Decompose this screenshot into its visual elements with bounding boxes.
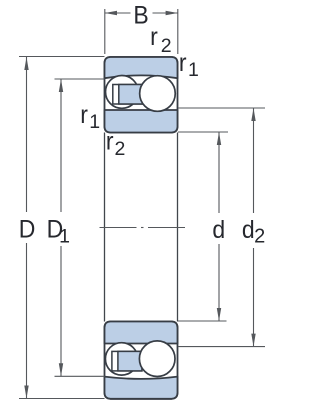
svg-text:B: B bbox=[133, 2, 148, 30]
inner ring (top, blue) bbox=[105, 110, 178, 133]
svg-text:1: 1 bbox=[59, 226, 70, 248]
svg-text:2: 2 bbox=[254, 225, 265, 247]
svg-text:r: r bbox=[80, 101, 88, 129]
dimension d line bbox=[218, 132, 220, 321]
inner ring (bottom, blue) bbox=[105, 322, 178, 344]
svg-text:2: 2 bbox=[115, 138, 126, 160]
bearing top section outline bbox=[105, 57, 178, 133]
bearing bottom section outline bbox=[105, 322, 178, 399]
bearing right face line bbox=[177, 133, 179, 322]
svg-text:1: 1 bbox=[89, 111, 100, 133]
dimension D extension lines bbox=[19, 57, 105, 399]
arrow D bottom bbox=[24, 386, 28, 399]
svg-text:r: r bbox=[179, 49, 187, 77]
arrow B left bbox=[105, 11, 117, 15]
arrow d top bbox=[217, 132, 221, 145]
ball (bottom row, rear) bbox=[105, 343, 137, 375]
svg-text:1: 1 bbox=[188, 59, 199, 81]
svg-text:D: D bbox=[19, 216, 36, 244]
outer ring (bottom, blue with spherical raceway arc) bbox=[105, 377, 178, 399]
dimension B line bbox=[105, 12, 178, 14]
svg-text:d: d bbox=[212, 216, 225, 244]
dimension d2 extension lines bbox=[178, 108, 265, 347]
arrow D1 bottom bbox=[59, 363, 63, 376]
svg-text:2: 2 bbox=[161, 35, 172, 57]
svg-text:d: d bbox=[242, 216, 255, 244]
outer ring (top, blue with spherical raceway arc) bbox=[105, 57, 178, 78]
dimension D line bbox=[26, 57, 28, 399]
arrow d2 bottom bbox=[251, 334, 255, 347]
dimension B extension lines bbox=[105, 9, 178, 54]
dimension D1 extension lines bbox=[55, 79, 105, 376]
dimension d extension lines bbox=[178, 132, 228, 321]
cage (bottom section) bbox=[112, 351, 142, 371]
dimension D1 line bbox=[60, 79, 62, 376]
dimension d2 line bbox=[253, 108, 255, 347]
svg-text:r: r bbox=[106, 128, 114, 156]
bearing left face line bbox=[104, 133, 106, 322]
center axis line bbox=[100, 227, 186, 229]
arrow d2 top bbox=[251, 108, 255, 121]
arrow B right bbox=[166, 11, 178, 15]
arrow d bottom bbox=[217, 308, 221, 321]
arrow D1 top bbox=[59, 79, 63, 92]
svg-text:r: r bbox=[150, 23, 158, 51]
arrow D top bbox=[24, 57, 28, 70]
ball (top row, front) bbox=[140, 76, 176, 112]
cage (top section) bbox=[113, 85, 143, 105]
ball (top row, rear) bbox=[106, 76, 139, 109]
ball (bottom row, front) bbox=[139, 341, 175, 377]
